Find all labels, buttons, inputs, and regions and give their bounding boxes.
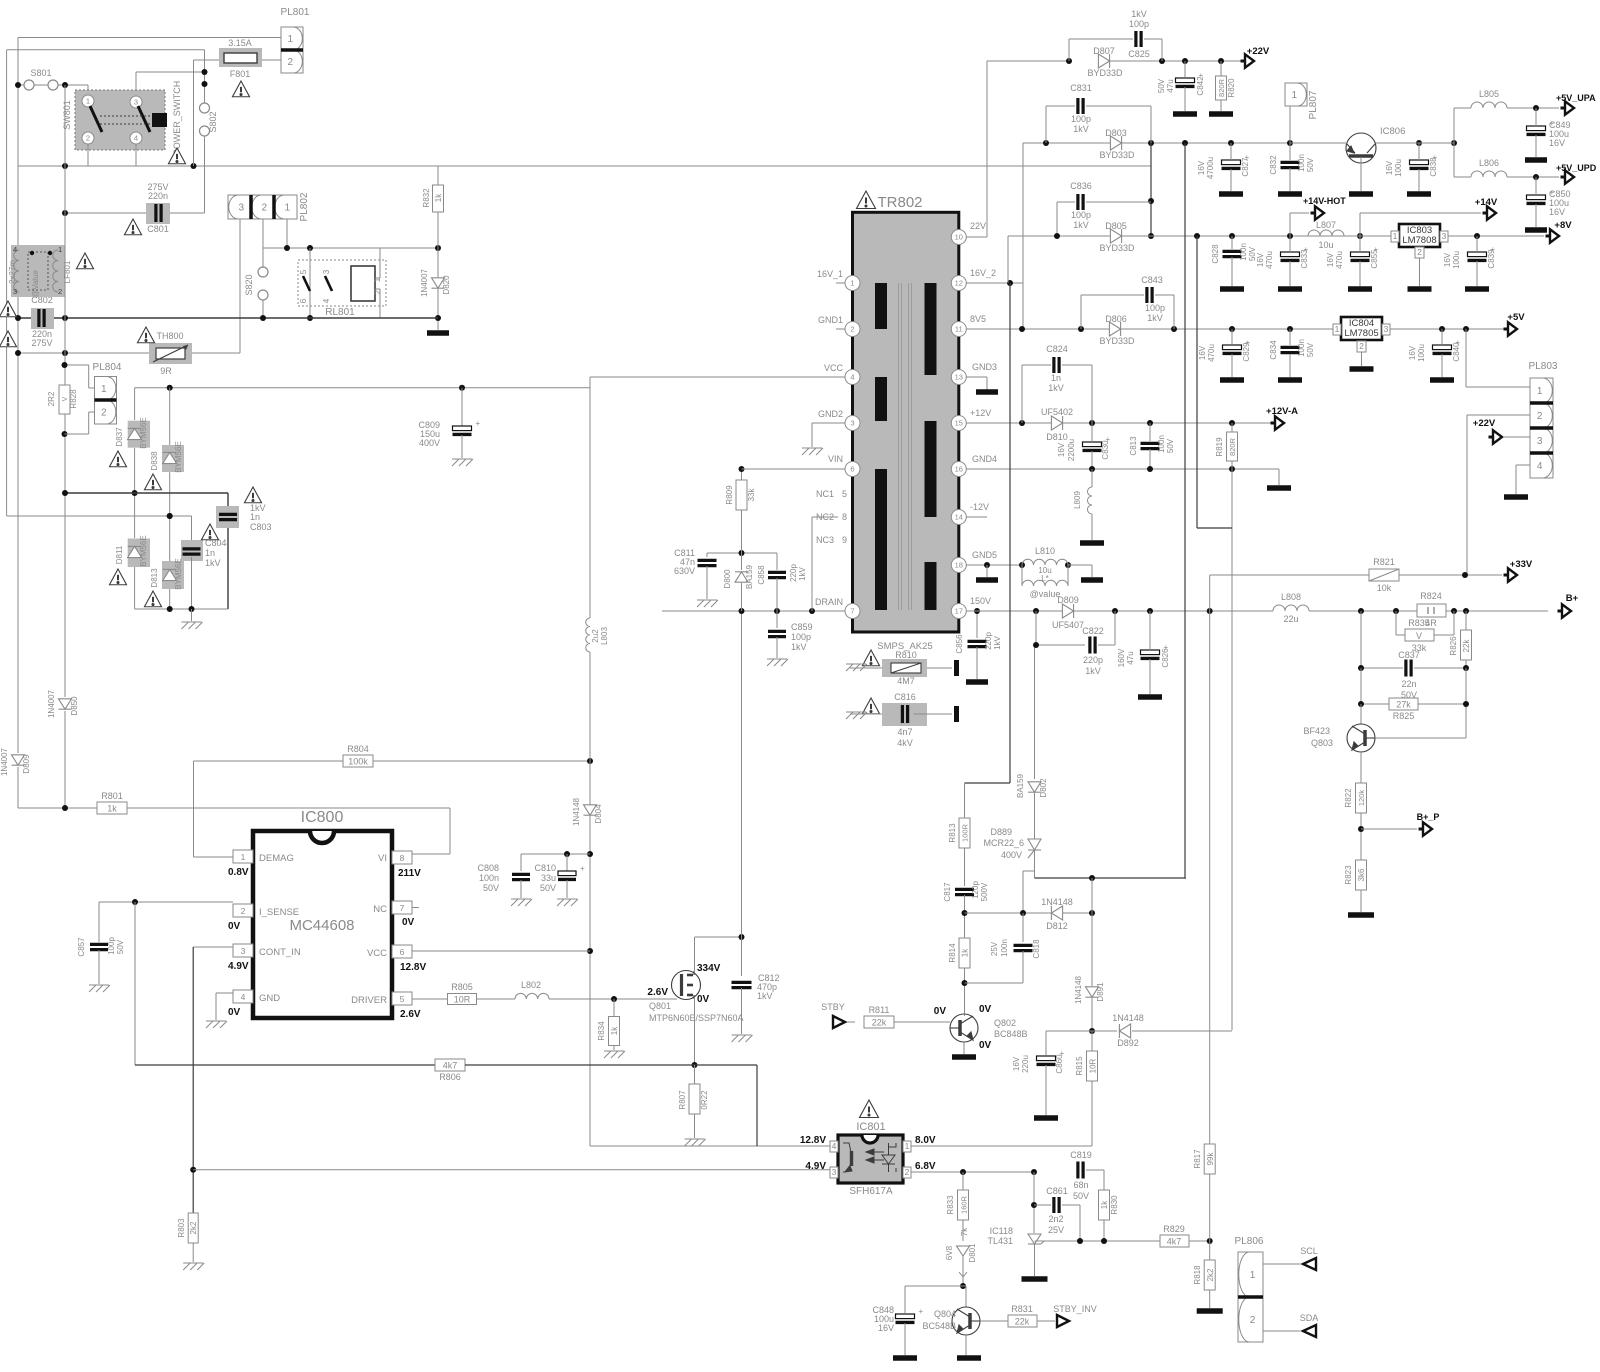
- svg-text:0V: 0V: [934, 1006, 947, 1017]
- LF801 core dashed: [28, 252, 48, 290]
- svg-text:SCL: SCL: [1300, 1246, 1318, 1256]
- wire C833 top: [1289, 236, 1291, 252]
- warning TR802: [857, 191, 876, 209]
- wire R809 top: [741, 469, 743, 480]
- svg-text:C818: C818: [1032, 939, 1041, 959]
- TR802 left winding bars: [875, 283, 887, 610]
- TR802 pin 4: [845, 370, 860, 385]
- svg-text:1: 1: [1291, 90, 1297, 101]
- svg-text:100n: 100n: [1297, 154, 1306, 172]
- svg-text:211V: 211V: [398, 868, 421, 879]
- svg-text:LM7808: LM7808: [1402, 235, 1436, 246]
- IC801 led: [866, 1143, 896, 1172]
- capacitor C833: [1281, 245, 1309, 260]
- resistor R801: [97, 802, 127, 814]
- svg-text:16V: 16V: [1012, 1056, 1021, 1071]
- svg-text:B+_P: B+_P: [1417, 812, 1440, 822]
- wire B+ rail: [1309, 610, 1548, 612]
- wire C836 left: [1056, 202, 1058, 236]
- junction: [167, 606, 173, 612]
- TR802 pin 3: [845, 416, 860, 431]
- junction: [739, 934, 745, 940]
- wire gnd5 drop: [986, 565, 988, 577]
- wire C857 drop: [98, 902, 100, 942]
- resistor R809: [736, 480, 747, 510]
- svg-text:LM7805: LM7805: [1344, 328, 1378, 339]
- svg-text:33u: 33u: [541, 873, 556, 883]
- TR802 pin 15: [951, 416, 966, 431]
- wire I_SENSE row: [99, 901, 233, 903]
- wire VIN row: [742, 468, 847, 470]
- svg-text:F801: F801: [230, 69, 251, 79]
- svg-text:100p: 100p: [1145, 303, 1165, 313]
- ground R807: [685, 1139, 706, 1146]
- inductor L806: [1471, 171, 1507, 177]
- warning C803: [244, 487, 261, 503]
- capacitor C801 body: [146, 203, 170, 224]
- diode D811 body: [128, 539, 150, 568]
- junction: [962, 980, 968, 986]
- wire R818 top: [1209, 1241, 1211, 1260]
- svg-text:3.15A: 3.15A: [228, 38, 252, 48]
- wire drain jog: [695, 936, 742, 938]
- svg-text:L*: L*: [1041, 574, 1049, 583]
- junction: [1033, 608, 1039, 614]
- svg-text:4: 4: [322, 298, 331, 303]
- capacitor C803: [219, 514, 237, 519]
- wire C830 top: [1091, 423, 1093, 442]
- capacitor C831: [1078, 98, 1083, 114]
- svg-text:SFH617A: SFH617A: [849, 1186, 893, 1197]
- TH800 resistor: [156, 348, 185, 359]
- ground C849: [1525, 157, 1547, 163]
- net B+: [1558, 604, 1572, 618]
- svg-text:400V: 400V: [1001, 850, 1022, 860]
- junction: [1065, 562, 1071, 568]
- svg-text:14: 14: [955, 513, 963, 522]
- PL803 cell 4: [1530, 453, 1553, 478]
- svg-text:100p: 100p: [107, 937, 116, 955]
- svg-text:47u: 47u: [1166, 79, 1175, 92]
- PL804 cell 1: [95, 377, 117, 401]
- svg-text:+5V: +5V: [1507, 312, 1525, 323]
- PL807 cell 1: [1285, 83, 1307, 106]
- svg-text:D889: D889: [990, 827, 1012, 837]
- resistor R810 body: [882, 659, 927, 677]
- svg-text:9R: 9R: [160, 366, 172, 376]
- junction: [1194, 233, 1200, 239]
- junction: [1358, 701, 1364, 707]
- svg-text:2x27m: 2x27m: [8, 260, 17, 284]
- wire aux row y516: [7, 515, 192, 517]
- junction: [307, 245, 313, 251]
- wire C813 top: [1149, 423, 1151, 441]
- warning D813: [144, 591, 161, 607]
- wire C818 top: [1022, 913, 1024, 942]
- svg-text:R824: R824: [1420, 591, 1442, 601]
- wire R825 left: [1360, 668, 1362, 704]
- wire SW801 pin4 down: [135, 144, 137, 166]
- svg-text:27k: 27k: [1396, 700, 1411, 710]
- warning F801: [232, 81, 249, 97]
- svg-text:D812: D812: [1046, 921, 1068, 931]
- wire C824 down: [1091, 365, 1093, 423]
- IC803 pin 1: [1391, 231, 1399, 242]
- resistor R817: [1204, 1144, 1215, 1174]
- wire Q802 emitter: [963, 1042, 965, 1054]
- svg-text:16V: 16V: [1549, 207, 1565, 217]
- wire fuse right: [262, 59, 281, 61]
- svg-text:4: 4: [850, 373, 854, 382]
- svg-text:120p: 120p: [971, 881, 980, 899]
- wire D813 bottom: [169, 589, 171, 609]
- svg-text:500V: 500V: [980, 882, 989, 901]
- wire C818 bottom: [1022, 951, 1024, 983]
- capacitor C813: [1141, 443, 1160, 448]
- wire R822-R823: [1360, 813, 1362, 860]
- ground C829: [1220, 377, 1244, 383]
- svg-text:275V: 275V: [31, 338, 52, 348]
- wire +33V rail right: [1399, 574, 1502, 576]
- wire C819-R830: [1103, 1170, 1105, 1190]
- svg-text:VI: VI: [378, 853, 387, 864]
- svg-text:R806: R806: [439, 1072, 461, 1082]
- svg-text:2.6V: 2.6V: [400, 1009, 421, 1020]
- capacitor C824: [1054, 357, 1059, 373]
- svg-text:C829: C829: [1242, 342, 1251, 362]
- svg-text:C831: C831: [1070, 83, 1092, 93]
- svg-text:1kV: 1kV: [1147, 313, 1163, 323]
- svg-text:D805: D805: [1105, 221, 1127, 231]
- svg-text:6V8: 6V8: [945, 1245, 954, 1260]
- ground IC804: [1350, 366, 1374, 372]
- svg-text:470u: 470u: [1335, 251, 1344, 269]
- resistor R826: [1461, 630, 1472, 660]
- svg-text:220p: 220p: [789, 564, 798, 582]
- svg-text:CONT_IN: CONT_IN: [259, 947, 301, 958]
- wire D807 right: [1110, 60, 1247, 62]
- svg-text:16V_2: 16V_2: [970, 268, 996, 278]
- wire C849 top: [1535, 108, 1537, 126]
- diode D805: [1110, 229, 1121, 243]
- svg-text:C838: C838: [1429, 157, 1438, 177]
- svg-text:0V: 0V: [979, 1004, 992, 1015]
- junction: [1229, 233, 1235, 239]
- wire 14Vhot feedback jog: [1197, 527, 1232, 529]
- svg-text:1k: 1k: [961, 948, 970, 957]
- wire PL804 pin1 lead: [89, 387, 95, 389]
- wire C861 drop: [1079, 1205, 1081, 1241]
- wire IC806 emitter: [1360, 157, 1362, 191]
- wire R817 down: [1209, 1174, 1211, 1241]
- junction: [564, 851, 570, 857]
- capacitor C850: [1527, 188, 1555, 203]
- svg-text:4n7: 4n7: [897, 727, 912, 737]
- svg-text:3: 3: [322, 269, 331, 274]
- TR802 pin 13: [951, 370, 966, 385]
- IC803 pin 3: [1440, 231, 1448, 242]
- junction: [1463, 701, 1469, 707]
- warning LF801 left: [0, 331, 17, 347]
- svg-text:D806: D806: [1105, 314, 1127, 324]
- svg-text:D892: D892: [1117, 1038, 1139, 1048]
- wire C843 left: [1080, 295, 1082, 329]
- wire GND3 drop: [986, 377, 988, 390]
- svg-text:D850: D850: [70, 696, 79, 716]
- wire pin15 rail: [966, 422, 1271, 424]
- svg-text:C808: C808: [477, 863, 499, 873]
- wire PL803 pin4 lead: [1516, 464, 1530, 466]
- capacitor C861: [1054, 1197, 1059, 1213]
- wire GND2 drop: [811, 423, 813, 447]
- junction: [62, 163, 68, 169]
- warning D811: [109, 569, 126, 585]
- wire IC800 gnd lead: [216, 992, 233, 994]
- svg-text:C840: C840: [1452, 342, 1461, 362]
- ground C860: [1034, 1115, 1058, 1121]
- junction: [1043, 140, 1049, 146]
- svg-text:4k7: 4k7: [443, 1061, 458, 1071]
- svg-text:1N4148: 1N4148: [572, 797, 581, 826]
- diode D800: [735, 572, 748, 582]
- svg-text:1: 1: [285, 203, 291, 214]
- svg-text:16: 16: [955, 465, 963, 474]
- svg-text:820R: 820R: [1228, 437, 1237, 456]
- wire IC804 gnd: [1361, 352, 1363, 366]
- svg-text:1: 1: [101, 384, 107, 395]
- resistor R833: [958, 1190, 969, 1220]
- svg-text:C859: C859: [791, 622, 813, 632]
- svg-text:C817: C817: [943, 882, 952, 902]
- capacitor C832: [1281, 162, 1300, 167]
- wire PL807 down: [1289, 106, 1291, 143]
- diode D838: [163, 452, 177, 463]
- inductor L810b: [1022, 565, 1068, 586]
- wire C860 top: [1045, 1031, 1047, 1055]
- wire C856 top: [976, 611, 978, 638]
- wire crowbar col: [1022, 871, 1024, 913]
- switch SW801 body: [75, 90, 165, 150]
- wire R826 bottom: [1465, 660, 1467, 668]
- wire C827 gnd: [1230, 169, 1232, 191]
- diode D837: [128, 428, 142, 439]
- svg-text:100n: 100n: [1000, 939, 1009, 957]
- warning D838: [144, 474, 161, 490]
- svg-text:6.8V: 6.8V: [915, 1161, 936, 1172]
- svg-text:L802: L802: [521, 980, 541, 990]
- IC801 pin 1: [903, 1141, 911, 1152]
- wire C839 top: [1476, 236, 1478, 252]
- ground C827: [1219, 191, 1243, 197]
- wire R820 drop: [1220, 61, 1222, 78]
- capacitor C860: [1037, 1049, 1065, 1064]
- wire C819 right: [1086, 1169, 1104, 1171]
- svg-text:7: 7: [850, 607, 854, 616]
- svg-text:22k: 22k: [1462, 639, 1471, 653]
- svg-text:R807: R807: [678, 1090, 687, 1110]
- wire C825 left: [1068, 39, 1070, 61]
- svg-text:820R: 820R: [1217, 78, 1226, 97]
- wire rect top row y388: [135, 387, 590, 389]
- svg-text:1k: 1k: [1100, 1200, 1109, 1209]
- svg-text:PL804: PL804: [93, 362, 122, 373]
- wire PL804 pin2 jog: [88, 412, 90, 434]
- svg-text:1N4007: 1N4007: [47, 689, 56, 718]
- junction: [1147, 420, 1153, 426]
- svg-text:+8V: +8V: [1554, 220, 1572, 231]
- wire C811 gnd: [706, 566, 708, 599]
- shunt IC118 TL431: [1028, 1234, 1044, 1244]
- wire DRIVER lead: [412, 998, 448, 1000]
- inductor L805: [1471, 102, 1507, 108]
- inductor L807: [1308, 230, 1344, 236]
- wire snubber row y493: [65, 492, 228, 494]
- svg-text:4: 4: [832, 1141, 837, 1151]
- svg-text:C803: C803: [250, 522, 272, 532]
- svg-text:R803: R803: [177, 1218, 186, 1238]
- junction: [1358, 826, 1364, 832]
- svg-text:9: 9: [842, 535, 847, 545]
- svg-text:BYM56E: BYM56E: [139, 535, 148, 567]
- IC801 pin 4: [830, 1141, 838, 1152]
- ground GND5: [976, 577, 998, 583]
- capacitor C804: [183, 549, 201, 554]
- ground C811: [697, 600, 718, 607]
- transistor IC806: [1346, 133, 1376, 163]
- net +8V: [1546, 229, 1560, 243]
- wire C858 top: [776, 553, 778, 570]
- svg-text:R834: R834: [597, 1021, 606, 1041]
- svg-text:R832: R832: [422, 188, 431, 208]
- transistor Q803: [1347, 724, 1375, 752]
- svg-text:1N4148: 1N4148: [1074, 975, 1083, 1004]
- svg-text:16V: 16V: [1549, 138, 1565, 148]
- diode D837 body: [128, 421, 150, 448]
- svg-text:C857: C857: [77, 937, 86, 957]
- wire Q804 collector: [965, 1286, 967, 1307]
- junction: [1089, 420, 1095, 426]
- junction: [167, 385, 173, 391]
- wire GND2 lead: [812, 422, 846, 424]
- inductor L808: [1273, 605, 1309, 611]
- LF801 pin dots: [30, 251, 34, 255]
- svg-text:2.6V: 2.6V: [647, 987, 668, 998]
- warning R810: [862, 650, 879, 666]
- resistor R824: [1417, 604, 1446, 617]
- junction: [1019, 326, 1025, 332]
- svg-text:2: 2: [1417, 247, 1422, 257]
- wire C826 top: [1149, 611, 1151, 650]
- svg-text:C827: C827: [1241, 157, 1250, 177]
- svg-text:16V: 16V: [1443, 252, 1452, 267]
- wire C860 gnd: [1045, 1065, 1047, 1115]
- wire C831 left: [1045, 106, 1047, 143]
- wire VI drop x450: [449, 808, 451, 854]
- svg-text:S820: S820: [244, 274, 254, 295]
- wire relay contact x310: [309, 248, 311, 318]
- svg-text:PL806: PL806: [1235, 1236, 1264, 1247]
- wire x1232 long: [1231, 469, 1233, 1030]
- svg-text:C834: C834: [1269, 340, 1278, 360]
- wire C838 top: [1418, 143, 1420, 160]
- wire S801 row: [18, 84, 88, 86]
- wire L809 top: [1091, 469, 1093, 487]
- svg-text:BA159: BA159: [745, 564, 754, 589]
- wire drain up: [694, 937, 696, 971]
- junction: [190, 1167, 196, 1173]
- wire R815 top: [1091, 1031, 1093, 1051]
- IC800 pin 3: [233, 944, 253, 957]
- svg-text:D837: D837: [115, 427, 124, 447]
- wire C839 gnd: [1476, 261, 1478, 286]
- svg-text:1: 1: [905, 1141, 910, 1151]
- svg-text:1: 1: [1537, 386, 1543, 397]
- junction: [1462, 572, 1468, 578]
- wire fb row y1241: [1035, 1240, 1161, 1242]
- svg-text:+5V_UPD: +5V_UPD: [1556, 163, 1597, 173]
- TR802 pin 10: [951, 230, 966, 245]
- net SCL arrow: [1303, 1258, 1316, 1270]
- wire C848 gnd: [904, 1323, 906, 1355]
- svg-text:8.0V: 8.0V: [915, 1135, 936, 1146]
- ground C834: [1278, 377, 1302, 383]
- wire gnd drop: [191, 609, 193, 621]
- wire B+ sense col: [1209, 611, 1211, 1144]
- svg-text:1N4007: 1N4007: [420, 268, 429, 297]
- svg-text:D807: D807: [1093, 46, 1115, 56]
- svg-text:Q801: Q801: [649, 1001, 671, 1011]
- svg-text:+33V: +33V: [1510, 559, 1533, 570]
- svg-text:L805: L805: [1479, 89, 1499, 99]
- wire PL803 pin4 drop: [1515, 465, 1517, 494]
- PL803 cell 1: [1530, 378, 1553, 403]
- junction: [1112, 608, 1118, 614]
- capacitor C801: [156, 204, 161, 222]
- wire L806 out: [1507, 176, 1559, 178]
- resistor R818: [1204, 1260, 1215, 1290]
- wire Q803 emitter: [1360, 752, 1362, 783]
- wire C810 drop: [566, 854, 568, 871]
- IC800 pin 7: [392, 901, 412, 914]
- svg-text:6: 6: [850, 465, 854, 474]
- junction: [1007, 280, 1013, 286]
- wire STBY-R811: [847, 1021, 855, 1023]
- svg-text:5: 5: [299, 269, 308, 274]
- thermistor TH800 body: [149, 343, 192, 364]
- svg-text:11: 11: [955, 325, 963, 334]
- svg-text:4: 4: [134, 134, 138, 143]
- svg-text:MCR22_6: MCR22_6: [983, 838, 1024, 848]
- wire L806 branch down: [1453, 143, 1455, 177]
- junction: [1182, 58, 1188, 64]
- svg-text:3: 3: [13, 287, 17, 296]
- SW801 pin 3: [130, 96, 142, 108]
- svg-text:R809: R809: [725, 485, 734, 505]
- wire gnd4 corner: [1278, 469, 1280, 485]
- ground C855: [1348, 286, 1372, 292]
- wire R825 lead r: [1418, 703, 1466, 705]
- svg-text:1kV: 1kV: [757, 991, 773, 1001]
- svg-text:+: +: [476, 419, 481, 428]
- diode D891: [1086, 987, 1099, 997]
- wire C843 row: [1081, 294, 1144, 296]
- svg-text:1: 1: [86, 97, 90, 106]
- ground C832: [1278, 191, 1302, 197]
- wire PL802 pin2 down: [262, 219, 264, 267]
- junction: [1463, 326, 1469, 332]
- SW801 pin 1: [82, 95, 94, 107]
- ground C808: [511, 899, 532, 906]
